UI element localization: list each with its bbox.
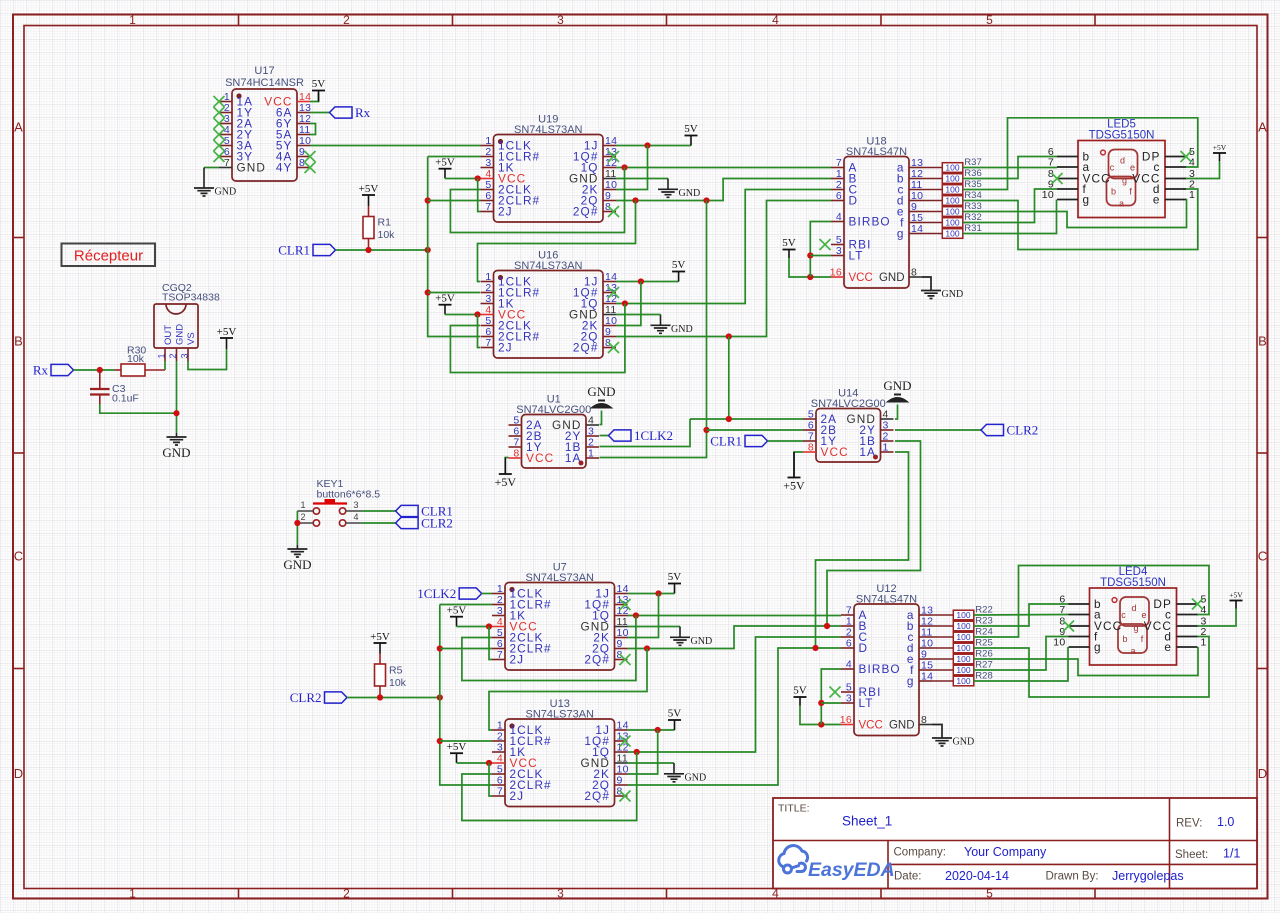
svg-text:2: 2 (343, 887, 350, 901)
junction CLR1 line (425, 247, 431, 253)
U14 pin 1 (1A) (881, 451, 894, 453)
wire U7 pin14 1J to 5V (628, 593, 675, 595)
wire U16 pin9 2Q to U18 input D (616, 201, 831, 337)
wire segment f: R27 to LED4 pin9 (974, 637, 1069, 671)
resistor R25 100 (953, 643, 974, 653)
junction CLR2 line (437, 694, 443, 700)
svg-text:+5V: +5V (447, 605, 467, 617)
wire U1 pin3 2Y to 1CLK2 flag (600, 435, 609, 437)
svg-text:8: 8 (911, 267, 917, 279)
svg-text:GND: GND (162, 445, 190, 460)
U14 pin 3 (2Y) (881, 429, 894, 431)
svg-text:d: d (1131, 603, 1136, 613)
svg-text:1: 1 (1201, 637, 1207, 649)
U18 pin 6 (D) (831, 200, 844, 202)
lead U12 to R27 (932, 669, 953, 671)
U18 pin 16 (VCC) (831, 276, 844, 278)
svg-text:B: B (14, 334, 23, 349)
svg-text:5V: 5V (672, 259, 686, 271)
svg-text:b: b (1111, 187, 1116, 197)
junction U7 2Q cascade branch (644, 645, 650, 651)
svg-text:b: b (1122, 634, 1127, 644)
svg-text:100: 100 (956, 676, 970, 686)
wire U16 pin11 GND to ground (616, 314, 661, 316)
svg-text:2: 2 (168, 353, 178, 358)
svg-text:7: 7 (485, 337, 491, 349)
net flag 1CLK2 at U7 pin1 (459, 588, 482, 599)
wire segment c: R24 to LED4 pin4 (974, 566, 1209, 638)
junction U18 LT branch (807, 252, 813, 258)
U7 pin 14 (1J) (615, 593, 628, 595)
IC U18 SN74LS47N body (844, 157, 909, 289)
lead U12 to R24 (932, 636, 953, 638)
svg-text:100: 100 (956, 665, 970, 675)
svg-text:2Q#: 2Q# (584, 789, 610, 803)
wire U16 pin14 1J to 5V (616, 281, 679, 283)
wire U16 1J junction to pin10 2K (616, 282, 641, 326)
wire CLR2 to U13 pin2 (440, 740, 492, 742)
wire segment d: R34 to LED5 pin2 (963, 189, 1198, 250)
svg-text:100: 100 (945, 196, 959, 206)
U19 pin 4 (VCC) (481, 178, 494, 180)
svg-text:B: B (1258, 334, 1267, 349)
U12 pin 10 (d) (919, 647, 932, 649)
junction U16 VCC/2J (474, 311, 480, 317)
wire U7 1J junction to pin10 2K (628, 594, 659, 638)
U7 pin 8 (2Q#) (615, 659, 628, 661)
U12 pin 16 (VCC) (841, 724, 854, 726)
svg-text:CLR1: CLR1 (710, 434, 742, 449)
resistor R33 100 (942, 207, 963, 217)
U12 pin 3 (LT) (841, 702, 854, 704)
ground symbol at U17 (194, 188, 214, 196)
wire node down to U1 pin2 1B (600, 419, 691, 447)
wire KEY1 pin3 to CLR1 flag (362, 510, 396, 512)
U17 no-connect X pin 2 (214, 107, 225, 118)
U19 pin 5 (2CLK) (481, 189, 494, 191)
U19 pin 9 (2Q) (603, 200, 616, 202)
svg-text:GND: GND (889, 720, 915, 732)
svg-text:VCC: VCC (859, 720, 883, 732)
U12 pin 6 (D) (841, 647, 854, 649)
svg-text:GND: GND (671, 324, 693, 335)
LED4 no-connect X pin 5 (1192, 599, 1203, 610)
U18 pin 1 (B) (831, 178, 844, 180)
wire U7 2Q to U13 pin1 1CLK (489, 649, 647, 731)
LED5 pin 1 (e) (1165, 199, 1186, 201)
junction KEY1 ground (294, 520, 300, 526)
svg-text:D: D (849, 194, 859, 208)
U17 no-connect X pin 5 (214, 140, 225, 151)
KEY1 pin 2 (297, 522, 313, 524)
junction CLR2 at U7 pin6 branch (437, 645, 443, 651)
wire U13 VCC junction to pin7 2J (489, 763, 492, 796)
wire U17 VCC pin14 to 5V (310, 93, 319, 102)
ground symbol at U12 (932, 738, 952, 746)
resistor R35 100 (942, 185, 963, 195)
LED5 pin 10 (g) (1057, 199, 1078, 201)
U18 pin 11 (c) (909, 189, 922, 191)
junction R5/CLR2 (377, 694, 383, 700)
wire U18 pin8 GND to ground (922, 277, 931, 291)
lead U18 to R35 (922, 189, 942, 191)
LED4 seven-segment glyph (1120, 597, 1149, 626)
wire U16 1Q to pin5 2CLK cascade (450, 304, 625, 373)
wire U12 pin8 GND to ground (932, 725, 942, 739)
power +5V below U1 (499, 473, 512, 475)
U19 pin 12 (1Q) (603, 167, 616, 169)
svg-text:2Q#: 2Q# (584, 653, 610, 667)
svg-text:+5V: +5V (435, 157, 455, 169)
U19 pin 11 (GND) (603, 178, 616, 180)
U17 pin 12 (6Y) (297, 123, 310, 125)
U12 pin 15 (f) (919, 669, 932, 671)
U18 pin 3 (LT) (831, 255, 844, 257)
svg-text:Sheet:: Sheet: (1175, 849, 1208, 861)
lead U18 to R36 (922, 178, 942, 180)
svg-text:R31: R31 (964, 223, 981, 234)
U16 pin 14 (1J) (603, 281, 616, 283)
lead U18 to R37 (922, 167, 942, 169)
svg-text:e: e (1153, 193, 1161, 207)
svg-text:1: 1 (129, 13, 136, 27)
U17 pin 5 (3A) (219, 145, 232, 147)
svg-text:2Q#: 2Q# (573, 205, 599, 219)
svg-text:Your Company: Your Company (964, 845, 1047, 859)
svg-text:OUT: OUT (163, 325, 174, 345)
svg-text:GND: GND (691, 636, 713, 647)
svg-text:GND: GND (685, 772, 707, 783)
wire U7 pin12 1Q to U12 input A (628, 615, 842, 617)
svg-text:R27: R27 (975, 660, 992, 671)
wire branch to U14 pin6 2B (707, 429, 804, 431)
svg-text:GND: GND (942, 289, 964, 300)
svg-text:CLR1: CLR1 (278, 243, 310, 258)
LED4 pin 6 (b) (1069, 603, 1090, 605)
svg-text:5V: 5V (668, 571, 682, 583)
svg-text:2J: 2J (510, 789, 525, 803)
wire U19 pin14 1J to 5V (616, 145, 691, 147)
svg-text:A: A (1258, 120, 1267, 135)
svg-text:6: 6 (846, 638, 852, 650)
U13 pin 14 (1J) (615, 729, 628, 731)
wire U16 2Q down to U14 pin5 2A and U1 pin2 1B (728, 337, 730, 420)
U17 no-connect X pin 9 (305, 151, 316, 162)
svg-text:SN74LVC2G00: SN74LVC2G00 (811, 398, 886, 410)
svg-text:VCC: VCC (526, 451, 554, 465)
U17 pin 14 (VCC) (297, 101, 310, 103)
wire U12 VCC to BIRBO and LT (821, 669, 841, 725)
border column tick (238, 15, 240, 26)
U16 pin 11 (GND) (603, 314, 616, 316)
lead U12 to R22 (932, 614, 953, 616)
svg-text:R35: R35 (964, 179, 981, 190)
capacitor C3 0.1uF (99, 370, 101, 389)
svg-text:100: 100 (945, 163, 959, 173)
U14 pin 2 (1B) (881, 440, 894, 442)
U12 pin 7 (A) (841, 614, 854, 616)
U17 pin 2 (1Y) (219, 112, 232, 114)
svg-text:+5V: +5V (447, 741, 467, 753)
U17 no-connect X pin 4 (214, 129, 225, 140)
svg-text:Jerrygolepas: Jerrygolepas (1112, 869, 1184, 883)
U17 pin 10 (5Y) (297, 145, 310, 147)
wire U19 1Q to pin5 2CLK cascade (450, 168, 624, 233)
junction U7 VCC/2J (486, 623, 492, 629)
svg-text:2020-04-14: 2020-04-14 (945, 869, 1009, 883)
U17 pin 1 (1A) (219, 101, 232, 103)
svg-text:e: e (1164, 640, 1172, 654)
svg-text:GND: GND (215, 187, 237, 198)
LED4 pin 4 (c) (1177, 614, 1198, 616)
U13 pin 9 (2Q) (615, 784, 628, 786)
resistor R26 100 (953, 654, 974, 664)
svg-text:+5V: +5V (1229, 591, 1243, 600)
U12 pin 11 (c) (919, 636, 932, 638)
net flag CLR2 at U14 (981, 424, 1004, 435)
wire U1 VCC pin8 to +5V (505, 458, 508, 475)
svg-text:4: 4 (836, 211, 842, 223)
svg-text:16: 16 (830, 267, 842, 279)
svg-text:R28: R28 (975, 671, 992, 682)
wire U14 pin3 2Y to CLR2 flag (895, 429, 981, 431)
svg-text:g: g (1083, 193, 1091, 207)
U18 pin 13 (a) (909, 167, 922, 169)
ground symbol below KEY1 (287, 549, 307, 557)
svg-text:1.0: 1.0 (1217, 815, 1234, 829)
U7 pin 12 (1Q) (615, 615, 628, 617)
U7 pin 13 (1Q#) (615, 604, 628, 606)
wire segment f: R32 to LED5 pin9 (963, 189, 1057, 223)
resistor R24 100 (953, 632, 974, 642)
U7 pin 6 (2CLR#) (492, 648, 505, 650)
svg-text:SN74LS47N: SN74LS47N (846, 146, 907, 158)
junction CLR2 at U13 pin2 branch (437, 738, 443, 744)
wire U19 VCC junction to pin7 2J (478, 179, 481, 212)
KEY1 pin 4 (346, 522, 362, 524)
junction U19 2Q to U1/U14 branch (703, 197, 709, 203)
wire U19 pin11 GND to ground (616, 178, 668, 180)
U16 pin 8 (2Q#) (603, 347, 616, 349)
U13 pin 7 (2J) (492, 795, 505, 797)
junction U12 LT branch (818, 700, 824, 706)
LED4 no-connect X pin 8 (1063, 621, 1074, 632)
svg-text:R24: R24 (975, 627, 992, 638)
svg-text:2J: 2J (510, 653, 525, 667)
wire CLR1 flag to U14 pin7 (768, 440, 804, 442)
wire 1CLK2 flag to U7 pin1 (482, 593, 492, 595)
svg-text:+5V: +5V (370, 631, 390, 643)
wire U19 pin12 1Q to U18 input A (616, 167, 831, 169)
wire U19 2Q to U16 pin1 1CLK (478, 201, 636, 282)
resistor R36 100 (942, 174, 963, 184)
U19 no-connect X pin 13 (608, 151, 619, 162)
svg-text:GND: GND (587, 384, 615, 399)
title block frame (773, 798, 1257, 889)
U18 pin 5 (RBI) (831, 244, 844, 246)
svg-text:1: 1 (300, 500, 305, 510)
svg-text:D: D (1258, 766, 1267, 781)
svg-text:10: 10 (1053, 637, 1065, 649)
resistor R34 100 (942, 196, 963, 206)
U7 pin 1 (1CLK) (492, 593, 505, 595)
wire CLR1 to U19 pin2 (428, 156, 481, 158)
wire +5V to U19 VCC pin4 (445, 178, 481, 180)
wire KEY1 pin4 to CLR2 flag (362, 522, 396, 524)
wire U14 VCC pin8 to +5V (794, 452, 803, 478)
LED5 pin 9 (f) (1057, 188, 1078, 190)
svg-text:SN74HC14NSR: SN74HC14NSR (225, 77, 304, 89)
U16 pin 13 (1Q#) (603, 292, 616, 294)
U17 pin 8 (4Y) (297, 167, 310, 169)
wire KEY1 pin1 to pin2 to ground (296, 511, 298, 545)
resistor R27 100 (953, 665, 974, 675)
svg-text:R5: R5 (389, 665, 403, 677)
U7 pin 7 (2J) (492, 659, 505, 661)
svg-text:3: 3 (836, 245, 842, 257)
wire U13 pin9 2Q to U12 input D (628, 648, 842, 785)
U19 pin 6 (2CLR#) (481, 200, 494, 202)
U16 pin 12 (1Q) (603, 303, 616, 305)
U19 pin 3 (1K) (481, 167, 494, 169)
wire U7 1Q to pin5 2CLK cascade (462, 616, 636, 681)
svg-text:R37: R37 (964, 157, 981, 168)
resistor R22 100 (953, 610, 974, 620)
ground symbol at U16 (651, 325, 671, 333)
wire U1 pin4 GND to ground (600, 411, 602, 425)
border column tick (880, 15, 882, 26)
svg-text:7: 7 (224, 157, 230, 169)
svg-text:VCC: VCC (849, 272, 873, 284)
wire segment a: R37 to LED5 pin7 (963, 167, 1057, 169)
wire CGQ2 pin2 to ground (176, 361, 178, 433)
U13 pin 2 (1CLR#) (492, 740, 505, 742)
junction U16 1J/2K tie (638, 278, 644, 284)
wire CLR2 vertical to U7/U13 clear pins (440, 605, 492, 786)
U7 pin 9 (2Q) (615, 648, 628, 650)
svg-text:GND: GND (283, 557, 311, 572)
svg-text:g: g (1133, 623, 1138, 633)
LED4 pin 5 (DP) (1177, 603, 1198, 605)
svg-text:3: 3 (557, 13, 564, 27)
net flag 1CLK2 at U1 (609, 430, 632, 441)
U7 pin 4 (VCC) (492, 626, 505, 628)
U13 pin 5 (2CLK) (492, 773, 505, 775)
resistor R37 100 (942, 163, 963, 173)
svg-text:8: 8 (921, 714, 927, 726)
svg-text:100: 100 (956, 643, 970, 653)
border column tick (452, 15, 454, 26)
svg-text:100: 100 (945, 185, 959, 195)
U13 pin 3 (1K) (492, 751, 505, 753)
wire CLR2 to U7 pin6 (440, 648, 492, 650)
LED4 pin 10 (g) (1069, 646, 1090, 648)
resistor R31 100 (942, 229, 963, 239)
IC U19 SN74LS73AN body (494, 135, 604, 223)
svg-text:SN74LS73AN: SN74LS73AN (526, 709, 595, 721)
IC U7 SN74LS73AN body (505, 583, 615, 671)
U12 pin 9 (e) (919, 658, 932, 660)
svg-text:SN74LS73AN: SN74LS73AN (514, 124, 583, 136)
U7 no-connect X pin 8 (620, 654, 631, 665)
resistor R5 10k (379, 654, 381, 665)
wire segment d: R25 to LED4 pin2 (974, 637, 1209, 698)
U17 pin 7 (GND) (219, 167, 232, 169)
wire loop U17 pin12 to pin11 (310, 124, 316, 135)
LED5 pin 7 (a) (1057, 166, 1078, 168)
U16 pin 6 (2CLR#) (481, 336, 494, 338)
svg-text:1/1: 1/1 (1223, 847, 1240, 861)
resistor R23 100 (953, 621, 974, 631)
U18 pin 2 (C) (831, 189, 844, 191)
svg-text:+5V: +5V (435, 293, 455, 305)
svg-text:GND: GND (679, 188, 701, 199)
svg-text:1A: 1A (859, 445, 876, 459)
svg-text:5V: 5V (782, 237, 796, 249)
U14 pin 6 (2B) (803, 429, 816, 431)
svg-text:10k: 10k (127, 353, 145, 365)
wire U14 pin1 1A down to U12 input D (816, 452, 909, 648)
U16 no-connect X pin 13 (608, 287, 619, 298)
wire node to U14 pin5 2A (690, 418, 803, 420)
svg-text:Date:: Date: (894, 871, 922, 883)
wire U18 VCC to BIRBO and LT (810, 222, 831, 278)
resistor R32 100 (942, 218, 963, 228)
net flag Rx (receiver input) (51, 364, 74, 375)
LED5 pin 4 (c) (1165, 166, 1186, 168)
svg-text:g: g (907, 674, 915, 688)
svg-text:LT: LT (859, 696, 874, 710)
LED5 no-connect X pin 8 (1052, 173, 1063, 184)
svg-text:4Y: 4Y (276, 161, 293, 175)
wire U17 GND pin7 to ground (204, 167, 219, 169)
U1 pin 2 (1B) (586, 446, 599, 448)
svg-text:R36: R36 (964, 168, 981, 179)
U18 no-connect X pin 5 (RBI) (820, 239, 831, 250)
U17 pin 4 (2Y) (219, 134, 232, 136)
U13 pin 6 (2CLR#) (492, 784, 505, 786)
svg-text:1CLK2: 1CLK2 (417, 586, 456, 601)
svg-text:2: 2 (343, 13, 350, 27)
wire to U18 pin3 LT (810, 255, 831, 257)
svg-text:REV:: REV: (1176, 818, 1202, 830)
border column tick (1094, 15, 1096, 26)
svg-text:4: 4 (846, 659, 852, 671)
wire CLR1 to U16 pin2 (428, 292, 480, 294)
net flag Rx (330, 107, 353, 118)
svg-text:TDSG5150N: TDSG5150N (1089, 130, 1155, 142)
U19 pin 10 (2K) (603, 189, 616, 191)
U17 pin 13 (6A) (297, 112, 310, 114)
U16 pin 1 (1CLK) (481, 281, 494, 283)
LED5 pin 5 (DP) (1165, 156, 1186, 158)
svg-text:R32: R32 (964, 212, 981, 223)
U12 pin 14 (g) (919, 680, 932, 682)
svg-text:g: g (1094, 640, 1102, 654)
U13 pin 12 (1Q) (615, 751, 628, 753)
U18 pin 8 (GND) (909, 276, 922, 278)
wire U16 pin12 1Q to U18 input C (616, 190, 831, 304)
junction R1/CLR1 (365, 247, 371, 253)
junction U7 1J/2K tie (655, 590, 661, 596)
IC U16 SN74LS73AN body (494, 271, 604, 359)
svg-text:D: D (14, 766, 23, 781)
lead U12 to R25 (932, 647, 953, 649)
U19 pin 1 (1CLK) (481, 145, 494, 147)
svg-text:R1: R1 (378, 217, 392, 229)
wire segment g: R28 to LED4 pin10 (974, 647, 1068, 681)
svg-text:14: 14 (911, 223, 923, 235)
